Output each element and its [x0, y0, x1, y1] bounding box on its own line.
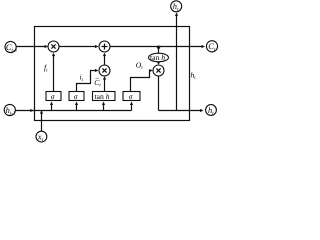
- arrow into ht top circle: [175, 12, 178, 16]
- op plus: [99, 41, 110, 52]
- node ht top: [171, 1, 182, 12]
- wire plus to Ct: [110, 46, 203, 48]
- symbol plus: [102, 44, 108, 50]
- junction dot C branch: [157, 46, 160, 49]
- wire x2 to plus: [104, 54, 106, 65]
- wire x3 down: [158, 76, 160, 111]
- symbol x1: [51, 44, 55, 48]
- node Ct: [206, 41, 217, 52]
- tanh box: [93, 92, 116, 101]
- arrow ellipse into x3: [157, 62, 160, 65]
- wire bottom h out: [159, 110, 202, 112]
- wire ellipse to x3: [158, 62, 160, 65]
- svg-text:~: ~: [95, 76, 99, 83]
- arrow gate 4: [130, 102, 133, 106]
- io circles: [4, 1, 217, 142]
- arrow into Ct circle: [202, 45, 206, 48]
- node ht bottom: [206, 105, 217, 116]
- symbol x3: [156, 68, 160, 72]
- arrow h entry into box: [30, 109, 34, 112]
- arrow gate 1: [50, 102, 53, 106]
- wire o staircase: [131, 71, 152, 92]
- sigma box 1: [46, 92, 61, 101]
- svg-text:tan h: tan h: [95, 92, 110, 101]
- wire tanhbox to x2: [104, 78, 106, 92]
- node xt: [36, 131, 47, 142]
- op x1: [48, 41, 59, 52]
- arrowheads: [30, 12, 205, 113]
- wire h rail: [15, 110, 131, 112]
- svg-text:σ: σ: [129, 92, 133, 101]
- arrow xt into rail: [40, 110, 43, 114]
- node Ct-1: [5, 41, 16, 52]
- arrow gate 3: [102, 102, 105, 106]
- arrow gate 2: [75, 102, 78, 106]
- wire gate arrow 3: [103, 104, 105, 111]
- wire gate arrow 4 elbow: [131, 104, 133, 111]
- wire x1 to plus: [59, 46, 97, 48]
- wire gate arrow 1: [51, 104, 53, 111]
- svg-text:σ: σ: [74, 92, 78, 101]
- operator circles: [48, 41, 164, 76]
- wire C branch down: [158, 47, 160, 54]
- arrow x2 into plus: [103, 53, 106, 57]
- wire sigma1 to x1: [53, 54, 55, 92]
- node ht-1: [4, 104, 15, 115]
- op x3: [153, 65, 164, 76]
- gate boxes: [46, 53, 169, 100]
- sigma box 3: [123, 92, 140, 101]
- arrow x1 into plus: [95, 45, 99, 48]
- wire xt up: [41, 111, 43, 131]
- wire Ct-1 to x1: [16, 46, 47, 48]
- arrow sigma1 into x1: [52, 53, 55, 57]
- sigma box 2: [69, 92, 84, 101]
- tanh ellipse: [149, 53, 169, 62]
- arrow tanh into x2: [103, 76, 106, 80]
- svg-text:tan h: tan h: [150, 53, 165, 62]
- arrow into ht bottom circle: [200, 109, 204, 112]
- wire i staircase: [77, 71, 97, 92]
- arrow o into x3: [150, 69, 153, 72]
- wire gate arrow 2: [76, 104, 78, 111]
- arrow i into x2: [95, 69, 99, 72]
- cell boundary box: [35, 27, 190, 121]
- wire h up branch: [176, 14, 178, 111]
- arrow into x1: [45, 45, 49, 48]
- symbol x2: [102, 68, 106, 72]
- svg-text:σ: σ: [51, 92, 55, 101]
- op x2: [99, 65, 110, 76]
